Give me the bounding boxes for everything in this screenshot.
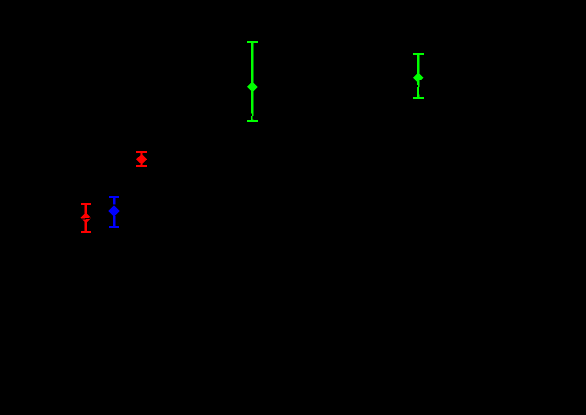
red data point R2 error bar top cap: [81, 203, 91, 205]
blue data point B1 error bar upper line: [113, 196, 115, 204]
black curve crossing G1 lower error line (left notch): [251, 114, 252, 116]
green data point G2 error bar bottom cap: [413, 97, 424, 99]
green data point G1 diamond marker: [247, 82, 258, 93]
red data point R1 error bar bottom cap: [136, 165, 147, 167]
blue data point B1 error bar lower line: [113, 216, 115, 228]
black curve crossing G2 lower line (right notch): [419, 87, 421, 95]
green data point G2 diamond marker: [413, 72, 424, 83]
red data point R2 error bar vertical line: [85, 203, 87, 232]
red data point R1 diamond marker: [136, 154, 147, 165]
blue data point B1 error bar top cap: [109, 196, 119, 198]
green data point G2 error bar vertical line: [417, 53, 419, 98]
green data point G1 error bar top cap: [247, 41, 258, 43]
green data point G1 error bar vertical line: [251, 41, 253, 121]
black curve crossing G1 lower error line (right notch): [252, 116, 253, 120]
blue data point B1 diamond marker: [109, 205, 120, 216]
green data point G2 error bar top cap: [413, 53, 424, 55]
black curve crossing G2 diamond lower-right edge: [420, 80, 425, 83]
blue data point B1 error bar bottom cap: [109, 226, 119, 228]
black curve crossing G2 lower line (left notch): [417, 85, 418, 87]
green data point G1 error bar bottom cap: [247, 120, 258, 122]
red data point R1 error bar vertical line: [140, 151, 142, 167]
red data point R1 error bar top cap: [136, 151, 147, 153]
black curve crossing R2 diamond (diagonal): [79, 218, 93, 220]
red data point R2 error bar bottom cap: [81, 231, 91, 233]
red data point R2 diamond marker: [81, 213, 92, 224]
